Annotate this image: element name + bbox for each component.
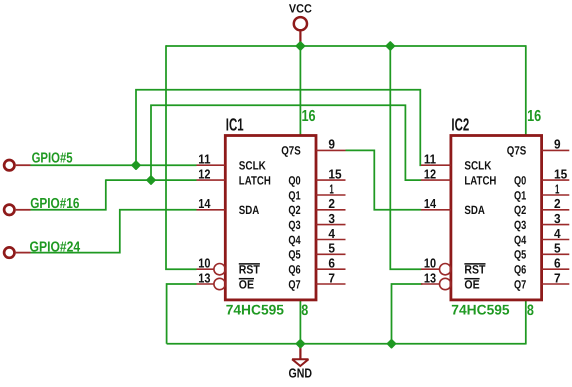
svg-text:15: 15	[554, 166, 567, 181]
wire VCC left riser to IC1 RST	[166, 45, 197, 269]
svg-text:1: 1	[329, 181, 333, 196]
wire IC1 Q7S pin 9 to IC2 SDA pin 14	[346, 150, 422, 209]
svg-text:VCC: VCC	[289, 1, 312, 15]
svg-text:Q3: Q3	[288, 218, 301, 232]
svg-text:SCLK: SCLK	[239, 159, 266, 173]
wire LATCH net to IC1 pin 12	[106, 179, 197, 181]
svg-text:SDA: SDA	[239, 203, 260, 217]
wire GPIO#5 net to IC1 pin 11	[31, 164, 197, 166]
svg-text:10: 10	[198, 256, 210, 271]
svg-text:Q0: Q0	[288, 173, 301, 187]
IC2 pin 2 stub	[542, 209, 570, 211]
svg-text:3: 3	[554, 211, 561, 226]
wire LATCH branch to IC2 pin 12	[151, 105, 421, 180]
IC1 pin 5 stub	[316, 253, 346, 255]
svg-text:11: 11	[198, 152, 210, 167]
svg-text:Q4: Q4	[514, 233, 527, 247]
IC2 pin 10 inversion bubble	[440, 264, 451, 275]
IC2 pin 1 stub	[542, 194, 570, 196]
junction GND at IC2 OE riser	[388, 340, 396, 348]
svg-text:16: 16	[527, 108, 541, 125]
svg-text:13: 13	[198, 270, 210, 285]
wire IC2 RST to VCC rail	[390, 46, 421, 269]
svg-text:12: 12	[198, 166, 210, 181]
junction LATCH branch	[147, 176, 155, 184]
svg-text:LATCH: LATCH	[239, 173, 271, 187]
svg-text:74HC595: 74HC595	[451, 301, 510, 317]
wire IC2 pin 16 to VCC rail	[525, 45, 527, 135]
svg-text:SCLK: SCLK	[464, 159, 491, 173]
IC2 pin 9 stub	[542, 149, 570, 151]
svg-text:Q7: Q7	[288, 277, 301, 291]
svg-text:10: 10	[424, 256, 436, 271]
wire IC1 pin 8 to GND rail	[299, 300, 301, 344]
svg-text:8: 8	[301, 302, 308, 319]
svg-text:4: 4	[328, 226, 335, 241]
svg-text:Q6: Q6	[288, 263, 301, 277]
IC2 pin 6 stub	[542, 268, 570, 270]
IC1 pin 11 stub	[197, 164, 226, 166]
connector GPIO#24 pad	[4, 247, 14, 257]
svg-text:2: 2	[328, 196, 335, 211]
svg-text:1: 1	[555, 181, 559, 196]
svg-text:14: 14	[198, 196, 211, 211]
svg-text:7: 7	[328, 270, 335, 285]
connector GPIO#5 pad	[4, 160, 14, 170]
wire GPIO#16 net	[31, 179, 106, 209]
IC1 pin 15 stub	[316, 179, 346, 181]
IC1 pin 6 stub	[316, 268, 346, 270]
svg-text:Q2: Q2	[288, 203, 301, 217]
svg-text:14: 14	[424, 196, 437, 211]
wire IC1 OE to GND rail	[167, 284, 197, 344]
IC1 pin 13 inversion bubble	[214, 278, 225, 289]
IC1 pin 4 stub	[316, 239, 346, 241]
svg-text:5: 5	[328, 241, 335, 256]
wire GPIO#24 net to IC1 SDA pin 14	[31, 210, 197, 253]
svg-text:Q1: Q1	[514, 188, 527, 202]
svg-text:GND: GND	[289, 365, 313, 380]
IC2 pin 14 stub	[421, 209, 451, 211]
IC2 pin 7 stub	[542, 283, 570, 285]
svg-text:GPIO#24: GPIO#24	[30, 240, 81, 256]
IC1 pin 7 stub	[316, 283, 346, 285]
IC2 pin 15 stub	[542, 179, 570, 181]
wire IC1 pin 16 to VCC rail	[299, 46, 301, 136]
junction VCC at IC2 RST riser	[387, 42, 395, 50]
svg-text:Q0: Q0	[514, 173, 527, 187]
svg-text:8: 8	[527, 302, 534, 319]
svg-text:SDA: SDA	[464, 203, 485, 217]
svg-text:Q2: Q2	[514, 203, 527, 217]
svg-text:74HC595: 74HC595	[226, 301, 285, 317]
svg-text:4: 4	[554, 226, 561, 241]
svg-text:IC1: IC1	[226, 115, 244, 135]
svg-text:Q5: Q5	[514, 248, 527, 262]
svg-text:12: 12	[424, 166, 436, 181]
svg-text:Q3: Q3	[514, 218, 527, 232]
svg-text:Q7: Q7	[514, 277, 527, 291]
wire IC2 OE to GND rail	[392, 284, 423, 344]
svg-text:16: 16	[302, 108, 316, 125]
wire VCC top rail	[166, 45, 526, 47]
svg-text:7: 7	[554, 270, 561, 285]
IC2 pin 4 stub	[542, 239, 570, 241]
svg-text:6: 6	[328, 256, 335, 271]
svg-text:6: 6	[554, 256, 561, 271]
IC2 pin 10 stub	[421, 268, 440, 270]
IC2 pin 13 inversion bubble	[440, 278, 451, 289]
IC1 pin 3 stub	[316, 224, 346, 226]
svg-text:3: 3	[328, 211, 335, 226]
svg-text:15: 15	[328, 166, 341, 181]
svg-text:GPIO#16: GPIO#16	[30, 196, 79, 212]
svg-text:9: 9	[328, 137, 335, 152]
svg-text:Q6: Q6	[514, 263, 527, 277]
IC1 pin 10 inversion bubble	[214, 264, 225, 275]
IC2 pin 3 stub	[542, 224, 570, 226]
IC2 pin 13 stub	[421, 283, 440, 285]
svg-text:5: 5	[554, 241, 561, 256]
IC1 pin 2 stub	[316, 209, 346, 211]
IC1 pin 12 stub	[197, 179, 226, 181]
svg-text:LATCH: LATCH	[464, 173, 496, 187]
IC1 74HC595 body	[225, 136, 316, 300]
IC2 pin 5 stub	[542, 253, 570, 255]
connector GPIO#16 pad	[4, 205, 14, 215]
IC2 pin 11 stub	[421, 164, 451, 166]
svg-text:11: 11	[424, 152, 436, 167]
junction GND at IC1 pin 8	[297, 340, 305, 348]
svg-text:2: 2	[554, 196, 561, 211]
GND ground symbol	[299, 344, 301, 359]
svg-text:IC2: IC2	[451, 115, 469, 135]
wire GPIO#5 branch to IC2 SCLK pin 11	[136, 90, 421, 165]
svg-text:Q5: Q5	[288, 248, 301, 262]
VCC power symbol	[294, 17, 307, 30]
IC1 pin 9 stub	[316, 149, 346, 151]
svg-text:Q7S: Q7S	[507, 144, 527, 158]
svg-text:13: 13	[424, 270, 436, 285]
junction GPIO#5/SCLK branch	[132, 161, 140, 169]
svg-text:9: 9	[554, 137, 561, 152]
wire IC2 pin 8 to GND rail	[525, 300, 527, 345]
svg-text:GPIO#5: GPIO#5	[32, 151, 73, 167]
IC1 pin 1 stub	[316, 194, 346, 196]
IC1 pin 14 stub	[197, 209, 226, 211]
wire GND bottom rail	[167, 343, 526, 345]
IC2 pin 12 stub	[421, 179, 451, 181]
IC1 pin 13 stub	[197, 283, 215, 285]
svg-text:Q1: Q1	[288, 188, 301, 202]
IC1 pin 10 stub	[197, 268, 215, 270]
svg-text:Q7S: Q7S	[281, 144, 301, 158]
junction VCC at IC1 pin 16	[297, 42, 305, 50]
svg-text:Q4: Q4	[288, 233, 301, 247]
IC2 74HC595 body	[451, 136, 542, 300]
